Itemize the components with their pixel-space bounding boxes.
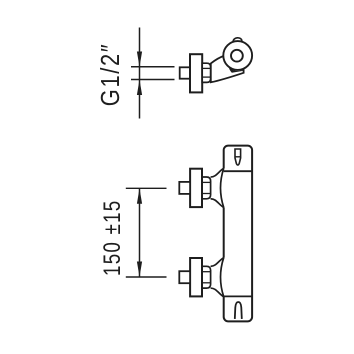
top cap divider — [224, 170, 252, 172]
extension line top — [126, 187, 167, 189]
arrowhead down (150 bottom) — [137, 262, 142, 278]
dimension line G1/2 vertical — [139, 28, 141, 119]
label G1/2" — [95, 43, 125, 106]
union nut (side view) — [202, 63, 210, 82]
temperature indicator on top cap — [235, 149, 241, 165]
top inlet bell fill — [211, 168, 226, 207]
arrowhead down (top) — [137, 52, 142, 68]
arrowhead up (150 top) — [137, 188, 142, 204]
arrowhead up (bottom) — [137, 80, 142, 96]
pipe line lower — [131, 79, 175, 81]
top inlet stub — [179, 182, 190, 194]
top inlet flange — [190, 169, 202, 207]
bottom inlet stub — [179, 271, 190, 283]
arch indicator on bottom cap — [235, 302, 242, 319]
extension line bottom — [126, 276, 167, 278]
mixer body — [224, 146, 252, 322]
pipe stub (side view) — [180, 67, 190, 78]
outlet inner circle — [231, 50, 243, 62]
bottom cap divider — [224, 295, 252, 297]
bottom inlet flange — [190, 258, 202, 296]
top tab on escutcheon — [233, 37, 242, 45]
curved union body — [211, 56, 244, 83]
bottom inlet nut — [202, 266, 211, 288]
escutcheon outer circle — [223, 41, 252, 70]
shading wedge under escutcheon — [229, 67, 244, 73]
svg-text:150 ±15: 150 ±15 — [99, 200, 126, 277]
pipe line upper — [131, 66, 175, 68]
bottom inlet bell fill — [211, 258, 226, 297]
dimension line 150 vertical — [139, 188, 141, 277]
top inlet nut — [202, 177, 211, 199]
flange (side view) — [190, 54, 202, 92]
svg-text:G1/2″: G1/2″ — [95, 43, 125, 106]
label 150 ±15 — [99, 200, 126, 277]
